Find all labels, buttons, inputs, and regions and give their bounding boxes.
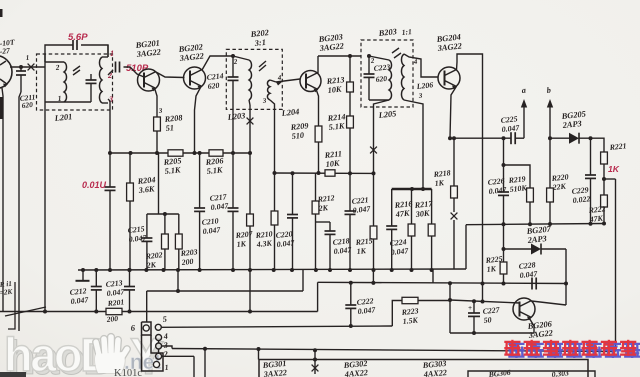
label 4 <box>162 332 168 341</box>
svg-text:5.1K: 5.1K <box>206 165 223 176</box>
wire: jog x317.6 (R201 line up to detector line) <box>317 282 319 311</box>
label C214 620 <box>206 71 224 91</box>
wire: BG204 coupling down to base line <box>481 282 485 302</box>
label pin 2 of L203 <box>232 58 238 66</box>
label R206 5.1K <box>204 156 224 176</box>
wire: detector output line y282.5-283.5 <box>318 282 566 283</box>
svg-text:=2K: =2K <box>0 288 14 297</box>
resistor R219 510K <box>502 163 534 226</box>
label C212 0.047 <box>69 286 89 306</box>
wire: L201 pin3 down to rail <box>108 99 112 155</box>
connector pin 5 <box>155 324 161 330</box>
core marks of B203 <box>392 48 401 58</box>
label 5.6P <box>68 32 88 43</box>
label R 2K (cut at left edge) <box>0 280 14 297</box>
wire: detector feed line y138 <box>448 136 511 140</box>
coil B201 dashed box <box>37 54 113 110</box>
wire: diode line y138 <box>548 136 569 140</box>
label C215 0.047 <box>127 224 147 244</box>
label BG203 3AG22 <box>317 33 344 54</box>
connector pin 6 hole <box>143 325 149 331</box>
wire: BG203 collector up to y56 <box>318 56 361 73</box>
transistor (cut at edge, converter stage) <box>0 56 12 89</box>
coil L201 primary winding <box>45 62 67 102</box>
label L203 <box>226 111 246 122</box>
label BG207 2AP3 <box>525 224 552 245</box>
wire: R201 line y311.5 <box>0 311 318 313</box>
label R214 5.1K <box>326 112 346 132</box>
capacitor C228 0.047 (on detector line) <box>532 278 536 290</box>
svg-text:2: 2 <box>162 350 168 359</box>
wire: RF rail y153 (L201-3 to L203 node) <box>110 152 250 154</box>
label C221 0.047 <box>351 195 371 215</box>
coil L204 winding <box>267 80 270 100</box>
wire: AF takeoff y249 <box>502 247 532 251</box>
wire: long bottom line y350 <box>172 349 616 352</box>
capacitor C227 50 electrolytic <box>468 299 480 335</box>
transistor BG204 <box>438 67 460 89</box>
wire: x450 detector to emitter line <box>448 281 452 333</box>
svg-text:3.6K: 3.6K <box>137 184 155 195</box>
wire: 510P tap from pin 1 <box>107 45 109 57</box>
diode BG205 2AP3 <box>569 133 579 144</box>
wire: pin2 to 510P <box>108 70 113 75</box>
wire: L206 top to BG204 base <box>404 54 438 77</box>
resistor R220 22K <box>547 138 554 226</box>
label R207 1K <box>234 229 254 249</box>
wire: ground bus y270 <box>78 269 466 270</box>
capacitor 5.6P line over L201 <box>45 45 108 62</box>
X mark on input wire <box>28 64 35 71</box>
svg-text:620: 620 <box>375 74 387 84</box>
core marks of L201 <box>73 66 80 75</box>
wire: L203 bottom to rail with X <box>247 100 254 155</box>
label BG205 2AP3 <box>560 110 586 131</box>
label R213 10K <box>325 75 345 95</box>
connector pin 2 <box>156 353 162 359</box>
label R216 47K <box>393 199 413 219</box>
coil L205 winding <box>369 56 392 100</box>
svg-text:C223: C223 <box>373 62 391 73</box>
label C228 0.047 <box>518 260 538 280</box>
wire: small L corner lower-left <box>8 282 15 329</box>
label pin 3 of L204 <box>261 97 267 105</box>
capacitor C213 0.047 <box>124 268 135 314</box>
svg-text:2K: 2K <box>145 260 157 270</box>
resistor R217 30K <box>428 189 435 272</box>
coil L201 secondary winding <box>99 57 108 103</box>
svg-text:50: 50 <box>483 315 492 325</box>
wire: x194 down <box>193 356 195 377</box>
svg-text:1.5K: 1.5K <box>402 315 419 326</box>
label 5 <box>162 315 167 324</box>
label pin 2 of L205 <box>369 57 375 65</box>
capacitor C215 0.047 <box>141 214 152 272</box>
resistor R206 5.1K <box>209 150 223 156</box>
wire: x373.5 down through R215 <box>373 173 375 226</box>
resistor R202 2K <box>162 214 169 272</box>
label 3 <box>162 341 168 350</box>
wire: emitter line y333 <box>450 332 534 334</box>
label R218 1K <box>432 168 451 188</box>
wire: BG202 emitter to rail <box>193 87 202 156</box>
label B202 3:1 <box>249 28 269 48</box>
label b <box>546 86 551 95</box>
svg-text:1K: 1K <box>236 239 247 249</box>
svg-text:47K: 47K <box>394 209 410 220</box>
wire and arrow b <box>547 99 553 138</box>
wire: converter output y67 <box>10 66 45 68</box>
wire: L204 to BG203 base <box>270 79 300 86</box>
label BG202 3AG22 <box>177 43 204 64</box>
label R209 510 <box>289 121 309 141</box>
label C223 620 <box>373 62 391 84</box>
capacitor C223 620 <box>364 56 390 100</box>
capacitor C224 0.047 <box>386 189 397 272</box>
svg-text:620: 620 <box>21 100 33 110</box>
svg-text:1K: 1K <box>486 264 497 274</box>
resistor R211 10K (horizontal on AGC line) <box>325 170 335 176</box>
X mark diode on R218 column <box>451 213 458 269</box>
resistor R208 51 <box>154 117 161 131</box>
wire: pin2 line <box>162 355 194 357</box>
label B203 1:1 <box>377 27 412 38</box>
capacitor C214 620 column <box>228 56 239 155</box>
edge smudge bottom-left corner <box>0 372 26 377</box>
wire: BG207 cathode to x566 <box>541 249 568 305</box>
label 1K red <box>608 164 620 174</box>
wire: into L203 top <box>233 56 249 60</box>
transistor BG201 <box>138 69 160 91</box>
label R221 <box>608 141 627 152</box>
wire: collector diagonal <box>532 301 567 305</box>
svg-text:+: + <box>468 304 472 312</box>
label 6 <box>130 323 136 333</box>
wire: C211 column down to y331 <box>19 92 21 331</box>
wire: volume line jog up to R223 <box>392 301 402 327</box>
wire: pin5 volume line y326.5 <box>162 326 393 327</box>
wire: converter emitter lead down left edge <box>2 88 3 311</box>
connector pin 1 hole <box>153 361 159 367</box>
svg-text:0.303: 0.303 <box>551 368 569 377</box>
wire: L206 bottom to y189 bar <box>404 100 423 189</box>
svg-text:10K: 10K <box>325 159 340 169</box>
resistor R225 1K <box>500 262 507 286</box>
column x350: R213 R214 C221 <box>348 54 352 82</box>
capacitor 510P <box>116 62 120 73</box>
capacitor C218 0.047 <box>316 222 336 272</box>
svg-text:51: 51 <box>165 123 174 133</box>
label R203 200 <box>179 247 198 267</box>
wire: corner x466 (bus up to AF rail) <box>465 225 467 269</box>
label R208 51 <box>163 113 183 133</box>
label BG201 3AG22 <box>134 39 161 60</box>
wire: R208 to rail <box>155 131 159 155</box>
capacitor C225 0.047 <box>511 132 515 144</box>
svg-text:1K: 1K <box>608 164 620 174</box>
label 1 <box>164 363 169 372</box>
resistor R214 5.1K <box>347 116 354 175</box>
label pin 2 (red) <box>107 71 112 80</box>
wire: x258.5 down to box <box>257 347 261 360</box>
svg-text:1:1: 1:1 <box>401 27 412 37</box>
node bar y189 <box>392 187 432 191</box>
svg-text:R221: R221 <box>608 141 627 152</box>
watermark chinese text <box>504 340 640 358</box>
svg-text:510K: 510K <box>509 183 528 194</box>
switch diagonal on R201 line <box>5 307 46 316</box>
resistor R210 4.3K <box>271 171 278 272</box>
capacitor C220 0.047 <box>287 171 298 272</box>
svg-text:R201: R201 <box>106 297 125 308</box>
label pin 4 of L204 <box>276 74 282 82</box>
core marks of B202 <box>259 61 266 71</box>
wire: R207 column to R201 line <box>248 270 252 314</box>
wire: pin6 line y291 <box>147 290 303 292</box>
label R215 1K <box>354 236 373 256</box>
wire: right AF rail y224.7 <box>466 224 604 225</box>
label R205 5.1K <box>162 156 182 176</box>
wire: L201 left pin column x45 <box>43 54 47 314</box>
svg-text:5.1K: 5.1K <box>328 121 345 132</box>
wire: R221 node to x615.5 <box>604 178 616 180</box>
resistor R213 10K <box>347 82 354 116</box>
capacitor C222 0.047 <box>345 281 356 328</box>
label L205 <box>377 109 397 120</box>
wire: y56 into C223 node <box>367 54 371 58</box>
wire: x615.5 down to bottom line <box>615 179 617 352</box>
label C226 0.047 <box>487 176 507 196</box>
label 1 tick <box>25 54 29 62</box>
label R202 2K <box>144 250 163 270</box>
label C220 0.047 <box>275 229 295 249</box>
label C222 0.047 <box>356 296 376 316</box>
svg-text:510: 510 <box>291 131 304 141</box>
label R222 47K <box>587 204 606 224</box>
resistor R221 <box>601 152 608 181</box>
resistor R212 2K <box>312 173 319 272</box>
capacitor C229 0.022 <box>585 138 596 226</box>
wire: BG203 emitter to R209 <box>317 91 319 127</box>
svg-text:1K: 1K <box>434 178 445 188</box>
resistor R204 3.6K <box>127 151 134 272</box>
svg-text:3:1: 3:1 <box>253 38 266 48</box>
wire: L203 node down through R207 <box>249 153 251 214</box>
label pin 1 of L201 primary <box>57 94 62 103</box>
label pin 3 (red) <box>108 95 113 104</box>
label pin 4 of L206 <box>412 58 418 66</box>
resistor R205 5.1K <box>168 150 183 156</box>
label R211 10K <box>323 149 342 169</box>
wire: BG204 collector loop to x482.5 <box>457 54 483 284</box>
svg-text:C227: C227 <box>482 305 501 316</box>
connector K101c body <box>142 322 164 371</box>
wire: diode to R221 <box>579 136 604 152</box>
resistor R222 47K <box>601 179 608 226</box>
wire: x315 down with X <box>312 348 319 374</box>
resistor R218 1K <box>451 136 458 212</box>
label R201 200 <box>105 297 125 324</box>
svg-text:4: 4 <box>162 332 168 341</box>
wire: R223 to x450 <box>418 300 450 302</box>
label K101c <box>114 368 142 377</box>
resistor R201 200 (horizontal) <box>106 308 122 314</box>
transistor BG206 <box>513 298 535 320</box>
resistor R223 1.5K <box>402 297 418 303</box>
label pin 1 (red) <box>110 49 114 58</box>
label BG302 4AX22 <box>342 359 368 377</box>
label R225 1K <box>484 254 503 274</box>
transistor BG202 <box>184 67 206 89</box>
label BG303 4AX22 <box>421 359 447 377</box>
label C229 0.022 <box>571 185 590 205</box>
capacitor C221 0.047 <box>345 173 356 272</box>
transformer B203 dashed box <box>361 40 413 107</box>
svg-text:5.6P: 5.6P <box>68 32 88 43</box>
resistor R203 200 <box>175 214 182 272</box>
svg-text:4AX22: 4AX22 <box>343 368 368 377</box>
svg-text:K101c: K101c <box>114 368 142 377</box>
svg-text:10K: 10K <box>327 85 342 95</box>
label 2 <box>162 350 168 359</box>
wire: R208 node down to bias bar <box>158 153 160 214</box>
label R204 3.6K <box>136 175 156 195</box>
capacitor 5.6P <box>73 40 77 50</box>
connector pin 3 <box>156 343 162 353</box>
edge smudge left <box>0 97 3 119</box>
capacitor C217 0.047 <box>228 208 239 272</box>
svg-text:1K: 1K <box>356 246 367 256</box>
wire: BG202 collector up to y56 <box>202 54 235 70</box>
svg-text:4AX22: 4AX22 <box>422 368 447 377</box>
node bar y214 (C215,R202,R203) <box>147 212 179 216</box>
wire and arrow a <box>515 99 527 138</box>
wire: BG201 collector to BG202 base <box>156 72 185 78</box>
label 0.01U <box>82 180 107 190</box>
capacitor 0.01U (x110 rail to bus) <box>105 153 116 272</box>
svg-text:4.3K: 4.3K <box>255 238 273 249</box>
label C225 0.047 <box>500 114 520 134</box>
label C210 0.047 <box>201 216 221 236</box>
svg-text:620: 620 <box>207 81 220 91</box>
watermark haoDIY.net <box>4 328 164 377</box>
label 510P <box>126 63 149 74</box>
trimmer capacitor inside L201 <box>64 74 97 102</box>
wire: corner x433 (bus down to detector line) <box>432 269 434 283</box>
resistor R216 47K <box>408 189 415 272</box>
label R223 1.5K <box>400 306 419 326</box>
wire: R203 column continues to pin6 line <box>176 270 180 293</box>
wire: L205 bottom down with X <box>370 100 389 175</box>
svg-text:22K: 22K <box>551 182 567 192</box>
label R212 2K <box>316 193 335 213</box>
wire: jog x303 (pin6 line up to ground bus) <box>302 270 304 291</box>
wire: L204 pin3 down to AGC line <box>270 100 275 173</box>
wire: BG204 emitter down to y138 <box>450 86 457 138</box>
label L206 <box>415 80 433 91</box>
label BG206 3AG22 <box>526 319 553 340</box>
svg-text:L206: L206 <box>415 80 433 91</box>
coil L203 winding <box>249 60 252 100</box>
diode BG207 2AP3 <box>531 244 541 255</box>
label C224 0.047 <box>389 237 409 257</box>
label R217 30K <box>413 199 433 219</box>
label L204 <box>280 107 300 118</box>
wire: C214 column to C217 <box>232 153 234 208</box>
wire: 510P to BG201 base <box>124 67 145 77</box>
label C211 620 <box>19 92 35 110</box>
label C217 0.047 <box>209 192 229 212</box>
label R210 4.3K <box>254 229 273 249</box>
capacitor C211 <box>16 65 26 92</box>
label pin 3 of L206 <box>417 92 423 100</box>
label -10T / -27 <box>0 37 15 56</box>
audio board box <box>259 360 588 377</box>
inner box BG306 <box>468 368 595 377</box>
svg-text:510P: 510P <box>126 63 149 74</box>
label R220 22K <box>550 172 569 192</box>
label C227 50 <box>482 305 501 325</box>
label R219 510K <box>507 174 528 194</box>
wire: AGC line y173 <box>275 172 375 174</box>
wire: BG206 emitter lead <box>530 319 535 334</box>
transistor BG203 <box>300 71 321 93</box>
svg-text:30K: 30K <box>414 209 430 220</box>
connector pin 4 <box>156 335 162 344</box>
label a <box>521 86 526 95</box>
resistor R209 510 <box>315 126 322 175</box>
capacitor C212 0.047 <box>91 268 102 314</box>
label BG204 3AG22 <box>435 33 462 54</box>
wire: R215 column to detector line <box>371 270 375 285</box>
svg-text:200: 200 <box>105 314 118 324</box>
label C213 0.047 <box>105 278 125 298</box>
label BG301 3AX22 <box>261 359 287 377</box>
ground <box>76 268 90 281</box>
svg-text:200: 200 <box>180 257 194 267</box>
wire: x205 down <box>203 347 207 377</box>
wire: R225 column top <box>503 224 505 262</box>
edge smudge top-left <box>0 9 3 17</box>
coil L206 winding <box>401 54 404 100</box>
label pin 2 of L201 primary <box>54 63 60 72</box>
svg-text:0.022: 0.022 <box>572 194 590 205</box>
wire: pin6 feed from y291 <box>146 291 148 322</box>
resistor R215 1K <box>370 226 377 272</box>
svg-text:5.1K: 5.1K <box>164 165 181 176</box>
svg-text:BG306: BG306 <box>487 368 511 377</box>
resistor R207 1K <box>247 214 254 272</box>
transformer B202 dashed box <box>226 49 282 109</box>
wire: base line y300 <box>448 298 520 304</box>
label C218 0.047 <box>332 236 352 256</box>
capacitor C226 0.047 column <box>498 136 509 226</box>
capacitor C210 0.047 column <box>194 151 205 272</box>
svg-text:0.01U: 0.01U <box>82 180 107 190</box>
wire: BG201 emitter down <box>155 90 157 118</box>
label L201 <box>53 112 73 123</box>
label pin 3 at R208 <box>157 107 163 115</box>
svg-text:1: 1 <box>110 49 114 58</box>
wire: pin3 to long line <box>162 346 172 349</box>
svg-text:3AX22: 3AX22 <box>262 368 287 377</box>
svg-text:2K: 2K <box>317 203 329 213</box>
